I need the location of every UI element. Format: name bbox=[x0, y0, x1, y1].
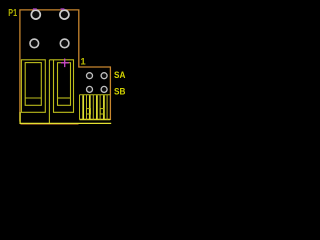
left pin divider line bbox=[25, 97, 41, 99]
ratsnest tick over hole 1 bbox=[33, 8, 37, 10]
svg-text:P1: P1 bbox=[8, 8, 17, 19]
right pin divider line bbox=[58, 97, 71, 99]
right pin outer outline (silkscreen) bbox=[49, 60, 73, 113]
SA/SB hole 3 bbox=[87, 86, 93, 92]
P1 bottom edge shadow (mech layer orange) bbox=[21, 124, 79, 126]
footprint origin cross (magenta) bbox=[61, 59, 69, 68]
SA/SB unit dim edges bbox=[80, 95, 108, 120]
pad hole 3 (lower-left plated hole) bbox=[30, 39, 39, 48]
pad hole 4 (lower-right plated hole) bbox=[60, 39, 69, 48]
left pin outer outline (silkscreen) bbox=[21, 60, 45, 113]
SA/SB hole 1 bbox=[87, 73, 93, 79]
svg-text:SB: SB bbox=[114, 86, 126, 97]
svg-text:SA: SA bbox=[114, 70, 126, 81]
SA/SB unit 1 small box bbox=[87, 109, 91, 114]
SA/SB pin units top line bbox=[80, 94, 111, 96]
left pin inner outline bbox=[25, 63, 41, 106]
background bbox=[0, 0, 132, 131]
center wall line bbox=[48, 60, 50, 124]
SA/SB hole 4 bbox=[101, 86, 107, 92]
pad hole 2 (top-right plated hole) bbox=[60, 10, 69, 19]
P1 bottom edge (silkscreen) bbox=[20, 112, 111, 123]
connector P1 body outline (orange, mechanical layer) bbox=[20, 10, 111, 122]
pad hole 1 (top-left plated hole) bbox=[31, 10, 40, 19]
svg-text:1: 1 bbox=[80, 56, 86, 67]
SA/SB unit pad bars bbox=[83, 95, 104, 119]
SA/SB hole 2 bbox=[101, 73, 107, 79]
right pin inner outline bbox=[58, 63, 71, 106]
SA/SB unit 2 small box bbox=[100, 109, 104, 114]
SA/SB unit outlines bottom line bbox=[80, 119, 111, 121]
ratsnest tick over hole 2 bbox=[61, 8, 65, 10]
